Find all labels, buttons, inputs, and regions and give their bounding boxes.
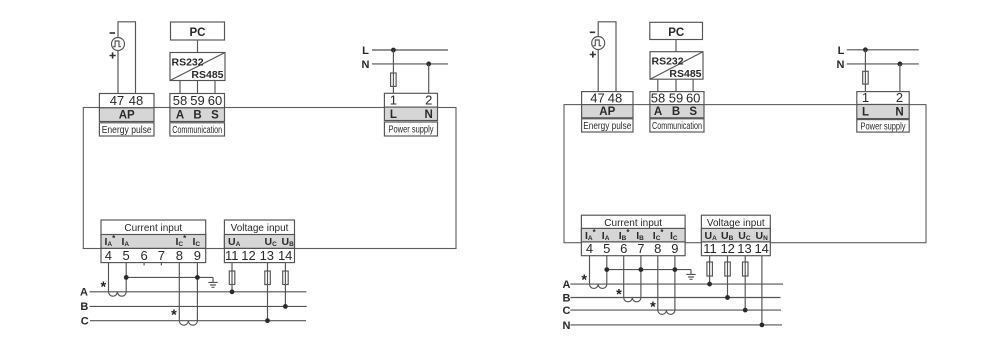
wire PS2 to terminal 48 [598,22,616,92]
RS232/RS485 converter U1 [170,53,225,82]
svg-text:58: 58 [651,90,665,105]
svg-text:N: N [563,320,571,332]
RS232/RS485 converter U2 [650,52,703,80]
terminal block Power supply pins 1 2 [384,93,437,121]
svg-text:1: 1 [390,93,397,108]
wire PC to converter U2 [675,40,677,52]
junction terminal 9 common (right) [673,267,678,272]
wire terminal 8 to CT2 [178,263,180,321]
svg-text:L: L [862,107,869,119]
N supply line [372,63,448,65]
svg-text:9: 9 [194,248,201,263]
svg-text:60: 60 [208,93,222,108]
wire L to terminal 1 (right) [864,50,866,92]
svg-text:PC: PC [668,27,684,39]
phase line A (left) [90,291,307,293]
terminal label UN (right) [756,230,769,242]
svg-text:12: 12 [720,241,734,256]
label Communication [170,123,225,136]
fuse F3 (UC) [265,271,271,285]
svg-text:Power supply: Power supply [389,125,434,136]
CT T3 on phase A (right) [590,284,607,288]
polarity mark CT4 [616,287,622,303]
svg-text:11: 11 [225,248,239,263]
node L (right supply) [838,45,845,57]
junction terminal 5 common (right) [604,267,609,272]
junction terminal 7 common (right) [639,267,644,272]
phase line B (right) [570,297,780,299]
svg-text:1: 1 [862,90,869,105]
svg-text:C: C [563,305,571,317]
PC box (right) [650,22,703,39]
terminal label UA (right) [705,230,718,242]
wire terminal 9 to common node [196,263,198,321]
CT T5 on phase C (right) [658,310,675,314]
wire PS1 to terminal 47 [117,51,119,94]
node L (left supply) [362,45,369,57]
terminal label IB (right) [636,230,644,242]
wire L to terminal 1 [392,50,394,93]
svg-text:2: 2 [896,90,903,105]
svg-text:L: L [362,45,369,57]
plus polarity label PS2 [590,51,596,57]
svg-text:A: A [176,110,184,122]
phase line A (right) [570,283,783,285]
phase node A (right) [563,279,571,291]
svg-text:B: B [563,292,571,304]
junction L (right) [863,47,868,52]
svg-text:Current input: Current input [604,218,662,229]
wire terminal 4 to CT1 [108,263,110,292]
phase node B (right) [563,292,571,304]
svg-text:*: * [650,300,656,316]
svg-text:RS485: RS485 [669,68,701,80]
svg-text:4: 4 [586,241,593,256]
svg-text:48: 48 [129,93,143,108]
wire U1 to terminal 60 [214,81,216,94]
svg-text:*: * [616,287,622,303]
terminal block Voltage input (left) pins 11-14 [224,220,294,263]
terminal label UA [228,236,241,248]
svg-text:RS232: RS232 [652,56,684,68]
meter outline (right device) [564,105,926,243]
svg-text:5: 5 [603,241,610,256]
plus polarity label PS1 [110,52,116,58]
svg-text:Communication: Communication [172,125,222,136]
svg-text:S: S [211,110,219,122]
phase node C (right) [563,305,571,317]
svg-text:Energy pulse: Energy pulse [583,121,631,132]
svg-text:*: * [581,272,587,288]
phase line C (left) [90,320,306,322]
terminal label IC* (right) [653,228,665,242]
terminal label IA* (right) [585,228,597,242]
svg-text:*: * [171,308,177,324]
phase node N (right) [563,320,571,332]
wire terminal 13 to phase C [267,263,269,321]
svg-text:12: 12 [241,248,255,263]
terminal label IC [193,236,201,248]
svg-text:47: 47 [590,90,604,105]
wire terminal 14 to phase N (right) [761,256,763,325]
svg-text:2: 2 [425,93,432,108]
junction N (right) [898,62,903,67]
svg-text:N: N [362,59,370,71]
wire terminal 13 to phase C (right) [744,256,746,310]
phase line N (right) [570,324,782,326]
svg-text:Energy pulse: Energy pulse [102,125,152,136]
node N (right supply) [837,59,845,71]
svg-text:7: 7 [158,248,165,263]
node N (left supply) [362,59,370,71]
svg-text:L: L [838,45,845,57]
ground symbol (left) [208,277,217,287]
wire terminal 7 to common node (right) [640,256,642,298]
svg-text:PC: PC [190,27,206,39]
terminal block AP pins 47 48 [99,93,154,122]
svg-text:A: A [654,106,662,118]
polarity mark CT1 [100,280,106,296]
polarity mark CT2 [171,308,177,324]
phase node C (left) [81,316,89,328]
wire U1 to terminal 59 [197,81,199,94]
phase node B (left) [80,301,88,313]
terminal label IC (right) [670,230,678,242]
svg-text:11: 11 [703,241,717,256]
svg-text:14: 14 [278,248,292,263]
phase line B (left) [90,305,307,307]
junction UA phase A (right) [707,282,712,287]
fuse F4 (UB) [283,271,289,285]
fuse F5 (right supply) [863,71,869,84]
junction L [391,48,396,53]
svg-text:5: 5 [122,248,129,263]
L supply line [372,49,448,51]
wire terminal 8 to CT5 [657,256,659,310]
wire terminal 4 to CT3 [589,256,591,284]
phase line C (right) [570,309,781,311]
svg-text:RS485: RS485 [191,69,223,81]
common wire to ground (right) [607,269,691,271]
svg-text:14: 14 [754,241,768,256]
fuse F1 (left supply) [391,73,397,86]
terminal block Power supply pins 1 2 (right) [857,90,909,118]
fuse F2 (UA) [229,271,235,285]
junction UA phase A [230,289,235,294]
svg-text:N: N [895,107,903,119]
polarity mark CT3 [581,272,587,288]
CT T1 on phase A [109,292,127,296]
wire U2 to terminal 60 [692,79,694,91]
pin numbers 4 5 6 7 8 9 (left) [105,248,201,263]
terminal label IA [122,236,130,248]
phase node A (left) [80,287,88,299]
junction UN phase N (right) [760,323,765,328]
wire PS1 to terminal 48 [118,22,136,94]
svg-text:8: 8 [654,241,661,256]
svg-text:13: 13 [737,241,751,256]
wire terminal 9 to common node (right) [674,256,676,310]
svg-text:*: * [100,280,106,296]
terminal label UC [265,236,278,248]
label Energy pulse [99,123,154,136]
junction UB phase B (right) [725,295,730,300]
svg-text:59: 59 [190,93,204,108]
svg-text:6: 6 [140,248,147,263]
svg-text:B: B [672,106,680,118]
pin numbers 11 12 13 14 (left) [225,248,292,263]
svg-text:60: 60 [686,90,700,105]
fuse F7 (UB right) [725,262,731,276]
fuse F8 (UC right) [743,262,749,276]
minus polarity label PS2 [590,31,595,33]
common wire to ground [126,276,213,278]
terminal label IC* [176,234,188,248]
svg-text:Current input: Current input [124,223,182,234]
terminal block Communication pins 58 59 60 (right) [650,90,704,118]
wire terminal 14 to phase B [284,263,286,307]
terminal label UB (right) [721,230,734,242]
pin numbers 11 12 13 14 (right) [703,241,769,256]
fuse F6 (UA right) [707,262,713,276]
stub terminal 6 [143,263,145,266]
svg-text:Voltage input: Voltage input [231,223,289,234]
wire terminal 12 to phase B (right) [727,256,729,298]
svg-text:RS232: RS232 [172,57,204,69]
pulse source PS2 [592,37,605,50]
junction UC phase C (right) [743,308,748,313]
meter outline (left device) [83,108,456,249]
pin numbers 4 5 6 7 8 9 (right) [586,241,679,256]
wire N to terminal 2 (right) [899,64,901,92]
svg-text:L: L [390,109,397,121]
terminal label IB* (right) [619,228,631,242]
junction N [426,62,431,67]
terminal label UB [282,236,295,248]
label Power supply (right) [857,120,909,133]
L supply line (right) [847,49,919,51]
minus polarity label PS1 [110,32,115,34]
N supply line (right) [847,63,919,65]
terminal block AP pins 47 48 (right) [582,90,633,118]
wire U1 to terminal 58 [179,81,181,94]
wire PS2 to terminal 47 [597,50,599,92]
svg-text:Voltage input: Voltage input [707,218,765,229]
wire terminal 11 to phase A [231,263,233,292]
wire terminal 5 to common node [125,263,127,292]
svg-text:A: A [80,287,88,299]
wire U2 to terminal 58 [657,79,659,91]
CT T2 on phase C [179,321,197,326]
svg-text:N: N [425,109,433,121]
svg-text:AP: AP [599,106,615,118]
wire terminal 5 to common node (right) [606,256,608,284]
PC box [171,22,225,40]
svg-text:N: N [837,59,845,71]
terminal block Current input (left) pins 4-9 [101,220,206,263]
CT T4 on phase B (right) [624,298,641,302]
svg-text:B: B [80,301,88,313]
svg-text:C: C [81,316,89,328]
stub terminal 7 [160,263,162,266]
svg-text:48: 48 [608,90,622,105]
svg-text:7: 7 [637,241,644,256]
svg-text:AP: AP [119,110,135,122]
terminal label IA* [105,234,117,248]
svg-text:9: 9 [671,241,678,256]
terminal block Voltage input (right) pins 11-14 [701,215,770,256]
terminal block Communication pins 58 59 60 [170,93,225,122]
wire terminal 11 to phase A (right) [709,256,711,284]
svg-text:8: 8 [176,248,183,263]
pulse source PS1 [112,38,125,51]
svg-text:6: 6 [620,241,627,256]
svg-text:47: 47 [110,93,124,108]
terminal block Current input (right) pins 4-9 [581,215,685,256]
junction terminal 5 common [124,275,129,280]
junction terminal 9 common [195,275,200,280]
svg-text:13: 13 [260,248,274,263]
svg-text:B: B [193,110,201,122]
junction UC phase C [265,318,270,323]
polarity mark CT5 [650,300,656,316]
junction UB phase B [283,304,288,309]
terminal label IA (right) [602,230,610,242]
wire terminal 6 to CT4 [623,256,625,298]
wire N to terminal 2 [428,64,430,93]
wire U2 to terminal 59 [675,79,677,91]
label Energy pulse (right) [582,119,633,132]
terminal label UC (right) [738,230,751,242]
svg-text:Communication: Communication [652,121,702,132]
svg-text:A: A [563,279,571,291]
ground symbol (right) [686,270,695,280]
label Communication (right) [650,119,704,132]
label Power supply [384,122,437,136]
svg-text:4: 4 [105,248,112,263]
svg-text:59: 59 [669,90,683,105]
svg-text:58: 58 [173,93,187,108]
wire PC to converter U1 [197,40,199,53]
svg-text:S: S [689,106,697,118]
svg-text:Power supply: Power supply [861,121,906,132]
